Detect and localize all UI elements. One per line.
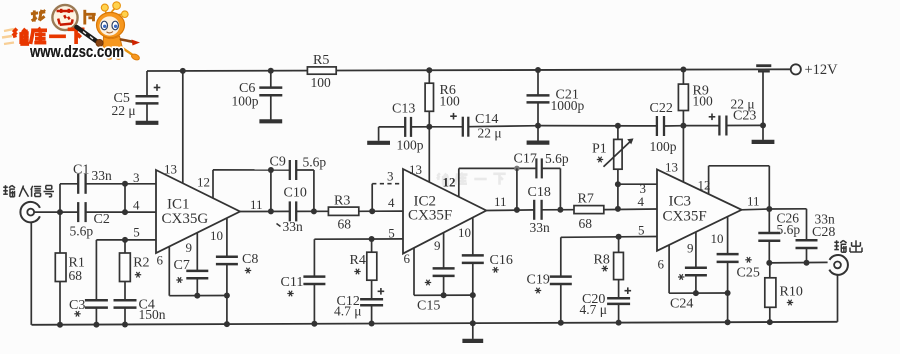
- label IC2 pin 12: [443, 174, 456, 189]
- svg-text:C11: C11: [281, 275, 304, 290]
- wire node A riser: [59, 184, 61, 212]
- label IC2 pin 6: [404, 251, 411, 266]
- wire IC2 feedback left leg: [514, 168, 520, 213]
- svg-text:C23: C23: [733, 108, 756, 123]
- resistor R2: [120, 237, 150, 300]
- capacitor C14: [429, 112, 538, 141]
- svg-text:C17: C17: [514, 152, 537, 167]
- capacitor C18: [528, 185, 551, 235]
- capacitor C13: [367, 102, 429, 153]
- resistor R1: [55, 212, 85, 328]
- capacitor C1: [60, 162, 112, 194]
- wire IC1 pin 6: [169, 247, 227, 299]
- resistor R9: [678, 67, 713, 129]
- svg-text:C18: C18: [528, 185, 551, 200]
- svg-text:5: 5: [638, 223, 645, 238]
- wire IC2 pin 13 riser: [428, 127, 430, 183]
- svg-text:5: 5: [133, 225, 140, 240]
- capacitor C5: [112, 71, 161, 123]
- label IC2 pin 11: [494, 194, 507, 209]
- label input signal 输入信号: [3, 185, 54, 197]
- svg-text:13: 13: [665, 160, 678, 175]
- svg-text:CX35F: CX35F: [663, 208, 707, 224]
- output connector J2: [829, 255, 848, 275]
- svg-text:9: 9: [434, 238, 441, 253]
- svg-text:4: 4: [388, 195, 395, 210]
- ground at bottom rail: [462, 323, 483, 341]
- svg-text:C28: C28: [812, 225, 835, 240]
- label IC1 pin 3: [133, 170, 140, 185]
- capacitor C20: [580, 287, 632, 325]
- potentiometer P1: [592, 126, 634, 188]
- svg-text:C7: C7: [174, 258, 190, 273]
- wire IC2 pin 6: [414, 248, 473, 298]
- capacitor C26: [758, 209, 800, 266]
- label IC3 pin 5: [638, 223, 645, 238]
- wire IC2 output: [486, 207, 574, 213]
- capacitor C2: [70, 202, 110, 238]
- svg-text:R7: R7: [578, 191, 594, 206]
- svg-text:11: 11: [747, 194, 760, 209]
- svg-text:11: 11: [494, 194, 507, 209]
- svg-text:100: 100: [311, 75, 332, 90]
- wire IC3 pin 12 loop: [709, 166, 773, 212]
- svg-text:CX35F: CX35F: [408, 208, 452, 224]
- svg-text:4.7 μ: 4.7 μ: [580, 302, 608, 317]
- wire IC2 pin 12 riser: [458, 168, 460, 197]
- svg-text:R2: R2: [133, 255, 149, 270]
- wire IC3 pin 3: [618, 183, 657, 185]
- svg-text:C24: C24: [670, 297, 693, 312]
- label IC3 pin 6: [658, 257, 665, 272]
- wire IC2 pin 5: [314, 236, 403, 242]
- svg-text:4.7 μ: 4.7 μ: [334, 304, 362, 319]
- label IC2 pin 3: [387, 169, 394, 184]
- capacitor at +12V rail: [756, 66, 771, 129]
- capacitor C9: [270, 154, 327, 180]
- power terminal +12V: [791, 62, 838, 78]
- svg-text:R10: R10: [780, 284, 803, 299]
- svg-text:C8: C8: [242, 252, 258, 267]
- resistor R7: [574, 191, 657, 231]
- capacitor C4: [114, 298, 166, 328]
- capacitor C10: [277, 185, 307, 234]
- svg-text:C10: C10: [284, 185, 307, 200]
- resistor R6: [425, 67, 460, 130]
- capacitor C25: [717, 217, 760, 325]
- svg-text:+12V: +12V: [805, 62, 839, 78]
- svg-text:6: 6: [658, 257, 665, 272]
- svg-text:22 μ: 22 μ: [112, 103, 136, 118]
- resistor R3: [328, 193, 403, 231]
- wire C2 to IC1 pin 4: [86, 209, 156, 215]
- label IC2 pin 10: [458, 225, 471, 240]
- capacitor C11: [281, 239, 326, 327]
- svg-text:C13: C13: [392, 102, 415, 117]
- label IC1 pin 4: [133, 197, 140, 212]
- label IC3 pin 13: [665, 160, 678, 175]
- svg-text:CX35G: CX35G: [162, 211, 209, 227]
- svg-text:C25: C25: [737, 266, 760, 281]
- label IC2 pin 13: [409, 162, 422, 177]
- wire IC3 pin 13 riser: [682, 126, 684, 183]
- svg-text:5: 5: [388, 225, 395, 240]
- svg-text:R3: R3: [334, 193, 350, 208]
- wire IC1 pin 13 riser: [180, 68, 186, 183]
- watermark logo dzsc: [2, 2, 140, 61]
- capacitor C28: [796, 211, 836, 265]
- svg-text:C9: C9: [270, 154, 286, 169]
- svg-text:C1: C1: [73, 162, 89, 177]
- wire output sleeve: [837, 275, 839, 322]
- svg-text:22 μ: 22 μ: [478, 126, 502, 141]
- svg-text:100p: 100p: [650, 139, 677, 154]
- label IC1 pin 13: [164, 162, 177, 177]
- label IC3 pin 4: [638, 194, 645, 209]
- svg-text:13: 13: [409, 162, 422, 177]
- svg-text:12: 12: [197, 174, 210, 189]
- svg-text:5.6p: 5.6p: [70, 223, 94, 238]
- capacitor C12: [334, 288, 384, 327]
- svg-text:C3: C3: [69, 298, 85, 313]
- capacitor C15: [417, 233, 455, 314]
- label IC1 pin 12: [197, 174, 210, 189]
- svg-text:R4: R4: [350, 253, 366, 268]
- label IC1 pin 5: [133, 225, 140, 240]
- svg-text:5.6p: 5.6p: [777, 222, 801, 237]
- wire IC2 feedback top: [459, 166, 537, 172]
- svg-text:P1: P1: [592, 142, 607, 157]
- capacitor C16: [462, 218, 513, 326]
- label output 输出: [834, 240, 862, 252]
- wire ground rail: [32, 322, 838, 325]
- svg-text:C19: C19: [527, 273, 550, 288]
- svg-text:100p: 100p: [232, 93, 259, 108]
- label IC3 pin 3: [640, 181, 647, 196]
- svg-text:9: 9: [687, 241, 694, 256]
- label IC1 pin 9: [186, 240, 193, 255]
- capacitor C6: [232, 68, 283, 122]
- resistor R4: [350, 239, 377, 299]
- svg-text:C2: C2: [94, 212, 110, 227]
- svg-text:www.dzsc.com: www.dzsc.com: [29, 43, 124, 61]
- wire C1 to IC1 pin 3: [86, 181, 156, 187]
- svg-text:10: 10: [210, 228, 223, 243]
- svg-text:150n: 150n: [139, 307, 166, 322]
- wire IC1 feedback top: [213, 167, 290, 173]
- svg-text:12: 12: [443, 174, 456, 189]
- svg-text:C22: C22: [650, 101, 673, 116]
- svg-text:IC3: IC3: [669, 194, 692, 210]
- wire IC2 pin 3 dashed: [372, 183, 402, 185]
- label IC1 pin 6: [157, 252, 164, 267]
- resistor R10: [765, 263, 803, 325]
- wire IC3 pin 6: [669, 245, 728, 296]
- svg-text:68: 68: [579, 216, 593, 231]
- capacitor C19: [527, 237, 572, 325]
- op-amp IC1 CX35G: [156, 170, 240, 253]
- capacitor C24: [670, 232, 707, 312]
- svg-text:68: 68: [338, 217, 352, 232]
- op-amp IC3 CX35F: [657, 169, 742, 250]
- svg-text:100: 100: [440, 93, 461, 108]
- label IC1 pin 10: [210, 228, 223, 243]
- svg-text:3: 3: [133, 170, 140, 185]
- wire C9 to corner: [296, 170, 314, 211]
- svg-text:9: 9: [186, 240, 193, 255]
- wire IC1 feedback left leg: [268, 170, 274, 214]
- capacitor C17: [514, 151, 569, 179]
- wire IC1 output: [240, 208, 328, 214]
- label IC3 pin 9: [687, 241, 694, 256]
- svg-text:1000p: 1000p: [551, 98, 585, 113]
- capacitor C3: [69, 240, 108, 328]
- svg-text:6: 6: [404, 251, 411, 266]
- ground under +12V capacitor: [752, 125, 775, 141]
- op-amp IC2 CX35F: [403, 169, 486, 254]
- svg-text:10: 10: [458, 225, 471, 240]
- resistor R5: [307, 53, 336, 90]
- wire P1 to IC3 pin 4: [615, 184, 621, 212]
- label IC3 pin 11: [747, 194, 760, 209]
- svg-text:6: 6: [157, 252, 164, 267]
- svg-text:R8: R8: [594, 252, 610, 267]
- svg-text:68: 68: [69, 268, 83, 283]
- wire IC3 pin 5: [561, 234, 657, 240]
- capacitor C23: [683, 97, 763, 136]
- svg-text:33n: 33n: [530, 220, 551, 235]
- wire input to node A: [34, 209, 78, 215]
- capacitor C8: [216, 218, 258, 327]
- ground under C21: [527, 126, 550, 143]
- wire IC1 pin 5: [96, 239, 156, 241]
- wire joining IC1 pins 3 and 4: [124, 184, 126, 212]
- wire output node: [769, 261, 827, 264]
- svg-text:4: 4: [638, 194, 645, 209]
- svg-text:10: 10: [711, 231, 724, 246]
- wire IC1 pin 12 riser: [212, 170, 214, 199]
- input connector J1: [20, 202, 39, 222]
- svg-text:13: 13: [164, 162, 177, 177]
- label IC3 pin 10: [711, 231, 724, 246]
- svg-text:4: 4: [133, 197, 140, 212]
- svg-text:33n: 33n: [283, 219, 304, 234]
- svg-text:C15: C15: [417, 299, 440, 314]
- svg-text:3: 3: [387, 169, 394, 184]
- label IC2 pin 5: [388, 225, 395, 240]
- svg-text:C16: C16: [490, 253, 513, 268]
- wire IC2 pins 3-4 link: [371, 184, 373, 212]
- resistor R8: [594, 237, 624, 298]
- svg-text:11: 11: [250, 197, 263, 212]
- wire +12V supply rail: [147, 69, 791, 71]
- wire IC3 output: [742, 209, 807, 240]
- capacitor C21: [527, 67, 585, 129]
- svg-text:100: 100: [693, 94, 714, 109]
- svg-text:100p: 100p: [397, 138, 424, 153]
- label IC2 pin 4: [388, 195, 395, 210]
- wire mid supply rail: [538, 123, 657, 129]
- wire input sleeve to ground rail: [30, 222, 32, 325]
- svg-text:33n: 33n: [92, 168, 113, 183]
- wire C17 to corner: [542, 168, 561, 209]
- label IC1 pin 11: [250, 197, 263, 212]
- label IC2 pin 9: [434, 238, 441, 253]
- capacitor C22: [650, 101, 684, 154]
- svg-text:5.6p: 5.6p: [545, 151, 569, 166]
- svg-text:R5: R5: [313, 53, 329, 68]
- faint ghost watermark: [437, 173, 506, 185]
- label IC3 pin 12: [698, 178, 711, 193]
- svg-text:5.6p: 5.6p: [303, 154, 327, 169]
- capacitor C7: [174, 233, 209, 296]
